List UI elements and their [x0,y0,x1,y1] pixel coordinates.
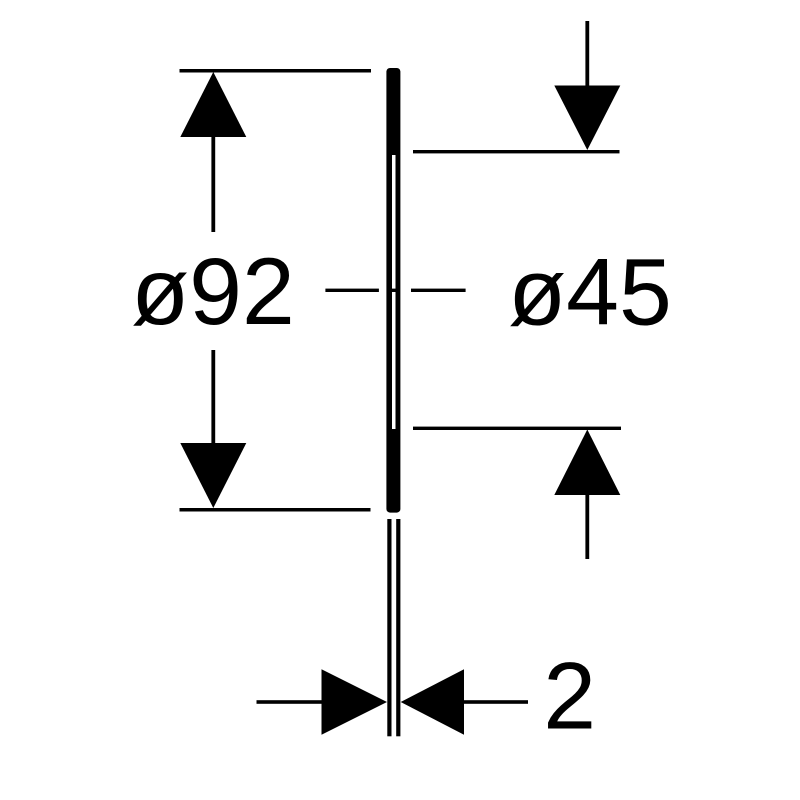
centerline right dash [411,289,466,292]
dim ø45 arrow tail bottom [585,494,589,559]
dim ø92 arrowhead up [180,72,246,137]
dim ø45 arrow tail top [585,21,589,87]
svg-text:2: 2 [543,644,596,750]
dim ø45 bottom extension line [413,427,621,430]
dim ø92 line upper segment [211,135,215,232]
dim ø92 arrowhead down [180,443,246,508]
svg-text:ø45: ø45 [508,240,672,346]
dim 2 right line [464,700,528,704]
dim 2 arrowhead right-pointing [322,669,388,735]
plate (cover plate seen edge-on, solid rounded bar) [386,68,400,513]
dim ø45 arrowhead down [554,86,620,151]
dim ø45 arrowhead up [554,430,620,496]
dim ø92 bottom extension line [180,508,371,512]
dim ø45 top extension line [413,150,620,153]
plate inner slot (upper white) [392,155,396,289]
svg-text:ø92: ø92 [131,239,295,345]
dim 2 left line [257,700,322,704]
dim ø92 top extension line [180,69,372,73]
plate inner slot (lower white) [392,292,396,429]
centerline left dash [325,289,379,292]
dim 2 arrowhead left-pointing [401,669,464,735]
extension line right face of plate (below) [396,519,400,736]
extension line left face of plate (below) [387,519,391,736]
dim ø92 line lower segment [211,350,215,444]
